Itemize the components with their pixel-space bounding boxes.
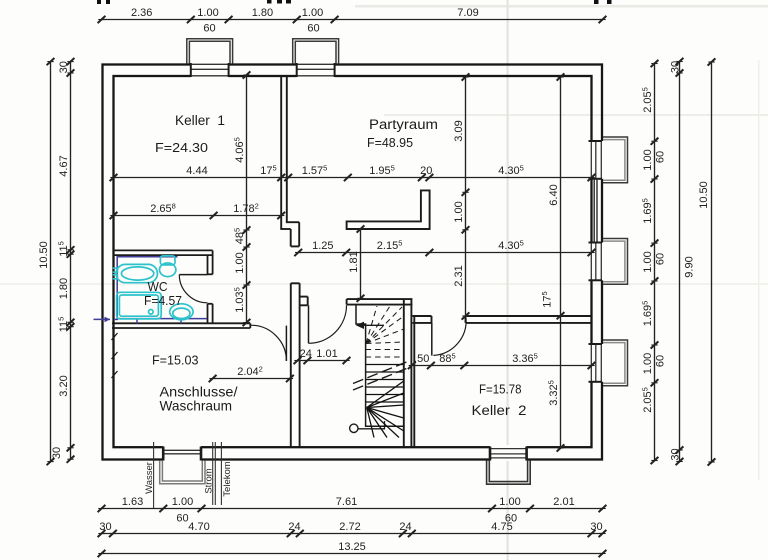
svg-text:20: 20 bbox=[420, 165, 432, 177]
Keller2 door leaf + swing arc bbox=[432, 318, 466, 355]
top wall window opening bbox=[297, 62, 335, 79]
right wall window opening bbox=[588, 243, 605, 281]
interior dim line upper bbox=[110, 164, 596, 182]
stair entry door leaf + swing arc bbox=[309, 305, 347, 343]
left inner dimension rail bbox=[51, 58, 74, 463]
right window light-well box bbox=[603, 137, 628, 183]
svg-text:WC: WC bbox=[148, 280, 168, 294]
svg-text:24: 24 bbox=[300, 348, 312, 360]
svg-text:.50: .50 bbox=[414, 353, 429, 365]
top rail 60 sublabels bbox=[203, 23, 319, 35]
svg-text:24: 24 bbox=[399, 521, 411, 533]
interior dim line middle bbox=[294, 239, 595, 257]
svg-text:30: 30 bbox=[670, 61, 682, 73]
vertical dim 1.81 at stair bbox=[348, 225, 364, 302]
bottom light-well box 1 (gray) bbox=[160, 461, 205, 484]
WC shower tray bbox=[117, 292, 162, 319]
svg-text:13.25: 13.25 bbox=[338, 541, 366, 553]
svg-text:Waschraum: Waschraum bbox=[160, 398, 233, 414]
svg-text:24: 24 bbox=[288, 521, 300, 533]
right outer dimension rail (10.50) bbox=[698, 58, 715, 465]
right window light-well box bbox=[603, 239, 628, 285]
interior vertical dim at x=560 bbox=[540, 73, 564, 451]
wall jog step bbox=[286, 221, 299, 223]
svg-text:Partyraum: Partyraum bbox=[369, 117, 438, 132]
svg-text:30: 30 bbox=[99, 521, 111, 533]
svg-text:2.01: 2.01 bbox=[553, 496, 574, 508]
outer wall: inner line rectangle bbox=[114, 76, 592, 447]
svg-text:1.00: 1.00 bbox=[172, 496, 193, 508]
svg-text:2.72: 2.72 bbox=[339, 521, 360, 533]
WC sink at bottom bbox=[170, 304, 193, 320]
wall Keller1/Partyraum (double line, upper part) bbox=[280, 77, 299, 246]
svg-text:Strom: Strom bbox=[204, 468, 215, 493]
svg-text:3.20: 3.20 bbox=[58, 375, 70, 396]
svg-text:1.00: 1.00 bbox=[642, 149, 654, 170]
svg-text:Wasser: Wasser bbox=[144, 462, 155, 494]
svg-text:1.00: 1.00 bbox=[234, 252, 246, 273]
stair bottom winder fan (solid) bbox=[367, 381, 404, 438]
Strom lines bbox=[212, 442, 214, 505]
right wall window opening bbox=[588, 141, 605, 179]
bottom wall opening 1 (cellar window/door) bbox=[163, 445, 201, 461]
svg-text:1.00: 1.00 bbox=[302, 7, 323, 19]
Keller2 dim line bbox=[408, 352, 596, 370]
svg-text:2.31: 2.31 bbox=[453, 265, 465, 286]
right middle dimension rail (9.90) bbox=[670, 58, 696, 465]
bottom dimension rail 2 bbox=[98, 521, 607, 537]
svg-text:F=4.57: F=4.57 bbox=[144, 294, 182, 308]
right window light-well box bbox=[603, 340, 628, 386]
bottom dimension rail 3 (total) bbox=[98, 541, 607, 557]
wall stub below jog bbox=[290, 229, 292, 246]
cropped dimension text fragments at top edge bbox=[97, 0, 612, 4]
svg-text:60: 60 bbox=[655, 253, 667, 265]
Waschraum door leaf + swing arc bbox=[251, 325, 287, 361]
bottom light-well box 2 bbox=[487, 461, 531, 485]
svg-text:1.81: 1.81 bbox=[348, 251, 360, 272]
L-shaped wall stub (chimney) in Partyraum bbox=[347, 190, 430, 229]
bottom dimension rail 1 bbox=[98, 496, 607, 512]
svg-text:60: 60 bbox=[307, 23, 319, 35]
svg-text:30: 30 bbox=[670, 448, 682, 460]
right inner dimension rail bbox=[641, 60, 659, 464]
svg-text:1.00: 1.00 bbox=[499, 496, 520, 508]
svg-text:3.09: 3.09 bbox=[453, 120, 465, 141]
WC / hall bottom wall (Waschraum top wall, double line) bbox=[112, 323, 250, 328]
svg-text:9.90: 9.90 bbox=[684, 256, 696, 277]
svg-text:1.00: 1.00 bbox=[642, 353, 654, 374]
WC toilet bbox=[160, 256, 176, 277]
svg-text:4.75: 4.75 bbox=[491, 521, 512, 533]
svg-text:1.00: 1.00 bbox=[642, 251, 654, 272]
Wasser line bbox=[153, 442, 155, 509]
svg-text:60: 60 bbox=[655, 355, 667, 367]
Telekom line bbox=[220, 442, 222, 505]
svg-text:1.80: 1.80 bbox=[252, 7, 273, 19]
svg-text:7.09: 7.09 bbox=[457, 7, 478, 19]
interior vertical dim at x=246 bbox=[233, 71, 251, 326]
purple water supply line entering left wall bbox=[94, 318, 119, 320]
hatch marks on left wall (Waschraum) bbox=[112, 333, 118, 378]
svg-text:10.50: 10.50 bbox=[38, 241, 50, 269]
right wall flue lines between windows 1-2 bbox=[593, 179, 595, 243]
svg-text:1.01: 1.01 bbox=[316, 348, 337, 360]
svg-text:30: 30 bbox=[590, 521, 602, 533]
svg-text:10.50: 10.50 bbox=[698, 181, 710, 209]
bottom wall opening 2 bbox=[490, 445, 527, 461]
top window light-well box bbox=[293, 39, 339, 64]
top dimension rail bbox=[98, 7, 607, 23]
svg-text:4.44: 4.44 bbox=[186, 165, 207, 177]
stair newel circle bbox=[350, 424, 358, 432]
svg-text:30: 30 bbox=[58, 61, 70, 73]
svg-text:1.63: 1.63 bbox=[122, 496, 143, 508]
stair-right wall / Keller2 left wall (double line) bbox=[404, 299, 415, 446]
top window light-well box bbox=[187, 39, 233, 64]
svg-text:1.00: 1.00 bbox=[197, 7, 218, 19]
svg-text:30: 30 bbox=[51, 447, 63, 459]
svg-text:F=15.03: F=15.03 bbox=[152, 354, 199, 368]
svg-text:7.61: 7.61 bbox=[336, 496, 357, 508]
stair solid treads bbox=[366, 365, 404, 403]
right wall window opening bbox=[588, 344, 605, 382]
svg-text:60: 60 bbox=[655, 151, 667, 163]
svg-text:1.80: 1.80 bbox=[58, 278, 70, 299]
svg-text:F=24.30: F=24.30 bbox=[155, 141, 208, 155]
Waschraum right wall / stair-left wall (double lines) bbox=[291, 283, 308, 446]
WC right wall lower pier (hollow) bbox=[208, 304, 213, 324]
right rail 60 sublabels bbox=[655, 151, 667, 367]
stair newel connector line bbox=[358, 421, 385, 429]
svg-text:60: 60 bbox=[176, 513, 188, 525]
WC right wall upper pier (hollow) bbox=[208, 250, 213, 274]
svg-text:60: 60 bbox=[203, 23, 215, 35]
Keller2 top wall (double line, two segments with door opening) bbox=[412, 316, 591, 323]
svg-text:2.36: 2.36 bbox=[131, 7, 152, 19]
WC top wall / Keller1 bottom wall (double line) bbox=[114, 250, 213, 255]
svg-text:6.40: 6.40 bbox=[548, 184, 560, 205]
interior dim line Keller1 bbox=[110, 202, 286, 220]
stair section cut line (double diagonal) bbox=[353, 361, 409, 390]
stair direction arrow bbox=[356, 322, 384, 329]
stair winder treads (dashed, above section cut) bbox=[366, 306, 404, 357]
svg-text:F=48.95: F=48.95 bbox=[367, 136, 413, 150]
Waschraum dim line bbox=[209, 365, 294, 383]
top wall window opening bbox=[191, 62, 229, 79]
stair inner stringer bbox=[356, 306, 404, 427]
WC washbasin bbox=[113, 264, 158, 282]
stair shaft top wall (double line) bbox=[347, 299, 413, 305]
svg-text:F=15.78: F=15.78 bbox=[479, 383, 522, 397]
svg-text:1.00: 1.00 bbox=[453, 201, 465, 222]
svg-text:4.67: 4.67 bbox=[58, 155, 70, 176]
left outer dimension rail (total 10.50) bbox=[38, 58, 54, 465]
bottom rail1 60 sublabels bbox=[176, 513, 517, 525]
WC door leaf + swing arc bbox=[179, 275, 207, 303]
svg-text:Keller 2: Keller 2 bbox=[472, 403, 527, 418]
door jamb stub at stair entry bbox=[300, 296, 308, 298]
interior vertical dim at x=465 bbox=[453, 73, 469, 319]
svg-text:Telekom: Telekom bbox=[222, 461, 233, 496]
stair entry dim line bbox=[294, 348, 351, 364]
svg-text:Keller 1: Keller 1 bbox=[175, 113, 225, 128]
svg-text:4.70: 4.70 bbox=[188, 521, 209, 533]
svg-text:1.25: 1.25 bbox=[312, 240, 333, 252]
purple pipe lining inside WC bbox=[117, 257, 207, 324]
outer wall: outer line rectangle bbox=[103, 65, 603, 460]
